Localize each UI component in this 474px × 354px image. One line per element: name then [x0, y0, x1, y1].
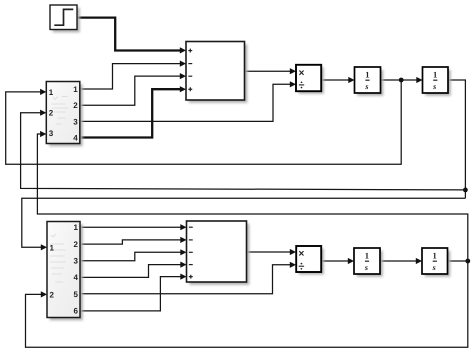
sum2 block: [187, 221, 250, 285]
svg-text:1: 1: [365, 69, 369, 79]
subsystem2 block (2 in 6 out): [47, 222, 83, 321]
svg-text:6: 6: [74, 307, 79, 316]
sign minus input1: [189, 226, 193, 228]
svg-text:s: s: [364, 263, 368, 272]
svg-text:4: 4: [73, 134, 78, 143]
wire subsystem1 out4 to sum1 input4 (bold): [80, 89, 181, 137]
faint scan smudges: [50, 234, 66, 282]
svg-text:2: 2: [74, 240, 79, 249]
svg-text:4: 4: [74, 273, 79, 282]
wire integrator3 to integrator4: [380, 260, 417, 262]
faint scan smudges: [51, 97, 68, 125]
svg-text:3: 3: [49, 129, 54, 138]
wire subsystem2 out6 to sum2 input5: [80, 277, 182, 311]
sum1 block: [186, 42, 247, 103]
sign minus input3: [189, 251, 193, 253]
wire feedback integrator1 junction to subsystem1 input1: [6, 80, 402, 164]
svg-text:1: 1: [50, 243, 55, 252]
wire subsystem2 out1 to sum2 input1: [80, 226, 182, 228]
wire feedback bottom chain to subsystem1 input3: [37, 134, 467, 261]
wire feedback bottom chain to subsystem2 input2: [26, 261, 468, 347]
svg-text:1: 1: [74, 223, 79, 232]
wire integrator1 to integrator2: [381, 79, 418, 81]
wire sum1 output to divide1 top input: [245, 70, 292, 72]
step waveform glyph: [54, 9, 73, 25]
integrator3 block 1/s: [354, 248, 383, 277]
svg-text:s: s: [432, 82, 436, 91]
wire divide2 to integrator3: [321, 260, 349, 262]
junction dot on right vertical: [463, 188, 468, 193]
svg-text:s: s: [364, 82, 368, 91]
svg-text:2: 2: [50, 290, 55, 299]
junction dot after integrator4: [465, 259, 470, 264]
svg-text:2: 2: [49, 109, 54, 118]
wire subsystem2 out3 to sum2 input3: [80, 252, 182, 260]
step source block: [50, 5, 80, 32]
integrator4 block 1/s: [422, 248, 450, 277]
junction dot after integrator1: [399, 78, 404, 83]
sign plus input5: [189, 275, 193, 279]
svg-text:3: 3: [73, 117, 78, 126]
subsystem1 block (3 in 4 out): [46, 82, 82, 147]
sign minus input2: [189, 239, 193, 241]
wire y198 to subsystem2 input1: [22, 198, 466, 247]
svg-text:s: s: [432, 263, 436, 272]
wire subsystem1 out2 to sum1 input3: [80, 76, 181, 105]
wire step to sum1 input1 (bold): [77, 18, 181, 51]
wire subsystem1 out3 to divide1 bottom input: [80, 84, 291, 121]
wire integrator4 output to right junction: [448, 260, 468, 262]
wire subsystem2 out4 to sum2 input4: [80, 265, 182, 278]
svg-text:1: 1: [433, 250, 437, 260]
svg-text:1: 1: [365, 250, 369, 260]
wire subsystem2 out2 to sum2 input2: [80, 240, 182, 244]
svg-text:5: 5: [74, 290, 79, 299]
sign plus input1: [188, 49, 192, 53]
sign minus input3: [188, 75, 192, 77]
multiply sign: [299, 251, 303, 255]
wire feedback y189 to subsystem1 input2: [21, 113, 466, 190]
svg-text:1: 1: [73, 85, 78, 94]
wire subsystem2 out5 to divide2 bottom input: [80, 265, 291, 294]
sign minus input4: [189, 264, 193, 266]
wire sum2 output to divide2 top input: [247, 251, 292, 253]
svg-text:2: 2: [73, 101, 78, 110]
integrator2 block 1/s: [423, 67, 451, 96]
svg-text:1: 1: [49, 88, 54, 97]
svg-text:1: 1: [433, 69, 437, 79]
divide sign: [299, 84, 304, 86]
wire divide1 to integrator1: [321, 79, 349, 81]
wire subsystem1 out1 to sum1 input2: [80, 64, 181, 89]
divide1 block: [296, 65, 324, 94]
divide2 block: [296, 246, 324, 275]
sign minus input2: [188, 63, 192, 65]
sign plus input4: [188, 87, 192, 91]
multiply sign: [299, 71, 303, 75]
wire integrator2 output down right side: [448, 80, 465, 198]
divide sign: [299, 265, 304, 267]
integrator1 block 1/s: [355, 67, 384, 96]
svg-text:3: 3: [74, 257, 79, 266]
